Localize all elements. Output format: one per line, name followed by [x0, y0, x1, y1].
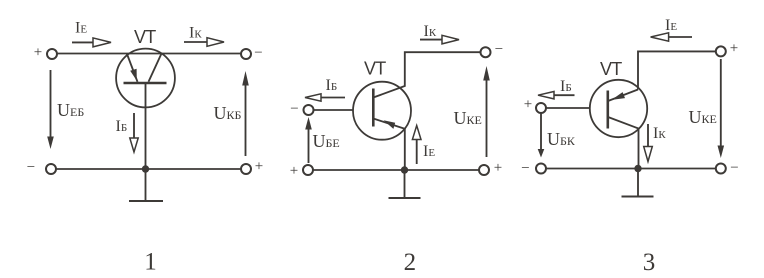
- svg-text:IЕ: IЕ: [75, 20, 87, 37]
- svg-text:VT: VT: [364, 59, 386, 79]
- svg-text:IК: IК: [653, 125, 666, 142]
- svg-text:−: −: [27, 160, 35, 176]
- svg-text:−: −: [254, 45, 262, 61]
- svg-text:IЕ: IЕ: [423, 143, 435, 160]
- svg-text:IК: IК: [189, 25, 202, 42]
- svg-text:UЕБ: UЕБ: [57, 100, 84, 120]
- svg-text:IК: IК: [424, 23, 437, 40]
- svg-text:3: 3: [643, 249, 656, 276]
- svg-text:VT: VT: [134, 27, 156, 47]
- svg-text:+: +: [255, 159, 263, 175]
- svg-text:UКЕ: UКЕ: [454, 108, 482, 128]
- svg-text:−: −: [730, 160, 738, 176]
- svg-text:−: −: [521, 161, 529, 177]
- svg-text:+: +: [34, 44, 42, 60]
- svg-text:+: +: [524, 97, 532, 113]
- svg-text:−: −: [290, 101, 298, 117]
- svg-text:IБ: IБ: [326, 77, 338, 94]
- svg-text:UБЕ: UБЕ: [313, 131, 340, 151]
- svg-text:+: +: [730, 40, 738, 56]
- svg-text:IЕ: IЕ: [665, 17, 677, 34]
- svg-text:IБ: IБ: [560, 78, 572, 95]
- svg-text:VT: VT: [600, 59, 622, 79]
- svg-text:1: 1: [144, 249, 157, 276]
- svg-text:UБК: UБК: [547, 129, 576, 149]
- svg-text:UКБ: UКБ: [214, 103, 242, 123]
- svg-text:−: −: [495, 42, 503, 58]
- svg-text:2: 2: [404, 249, 417, 276]
- svg-text:+: +: [290, 163, 298, 179]
- svg-text:+: +: [494, 160, 502, 176]
- svg-text:UКЕ: UКЕ: [689, 107, 717, 127]
- svg-text:IБ: IБ: [116, 118, 128, 135]
